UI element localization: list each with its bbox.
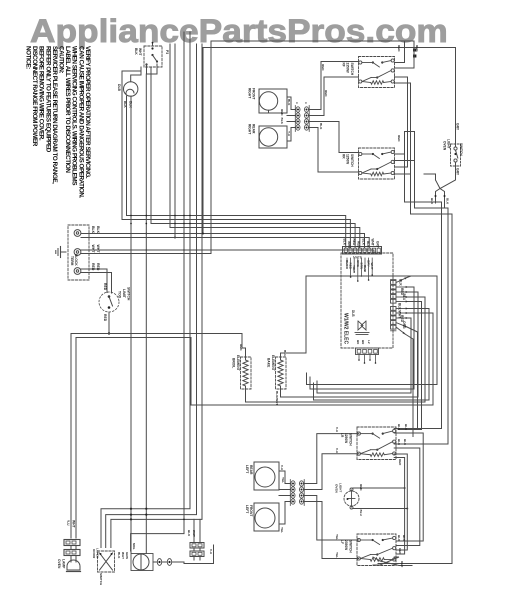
bottom connector blocks <box>187 519 204 560</box>
door latch switch <box>92 548 115 586</box>
wire P1 to RR switch <box>309 122 359 173</box>
svg-text:BLK: BLK <box>397 439 401 446</box>
svg-text:GRN: GRN <box>125 552 129 560</box>
svg-text:RED: RED <box>96 263 100 271</box>
svg-text:RED: RED <box>324 90 328 97</box>
svg-text:BLK: BLK <box>404 424 408 431</box>
svg-text:WHT: WHT <box>72 520 76 528</box>
board terminal strip <box>343 247 382 255</box>
svg-text:REFER ONLY TO FEATURES EQUIPPE: REFER ONLY TO FEATURES EQUIPPED <box>44 46 51 153</box>
wire P3/DLB down-feeds <box>131 64 157 82</box>
svg-text:OVEN: OVEN <box>443 141 447 151</box>
svg-text:BLK: BLK <box>134 48 138 55</box>
svg-text:RIGHT: RIGHT <box>248 124 252 134</box>
board connector CN2 <box>391 307 397 331</box>
svg-text:W1/W2 ELEC: W1/W2 ELEC <box>343 313 349 345</box>
svg-text:MDL: MDL <box>132 543 136 550</box>
connector pins motor <box>153 559 172 566</box>
svg-text:ORG: ORG <box>402 321 406 329</box>
svg-text:SERVICER PLEASE RETURN DIAGRAM: SERVICER PLEASE RETURN DIAGRAM TO RANGE, <box>51 46 58 184</box>
svg-text:WHT: WHT <box>96 245 100 254</box>
svg-text:RED: RED <box>415 45 419 52</box>
ground <box>56 247 66 258</box>
wire top bus y41 <box>202 41 455 234</box>
svg-text:RED: RED <box>357 241 361 248</box>
svg-text:NOTICE:: NOTICE: <box>25 46 32 69</box>
wire WHT pair terminal 2 <box>81 41 374 254</box>
wire RF to RR bridges <box>395 77 415 174</box>
svg-text:SWITCH: SWITCH <box>350 154 354 167</box>
svg-text:BLK: BLK <box>280 118 284 125</box>
wire left bus verticals <box>101 32 360 554</box>
svg-text:SWITCH: SWITCH <box>348 540 352 553</box>
wire latch to V-U riser <box>172 545 214 564</box>
svg-text:RED: RED <box>398 459 402 466</box>
svg-text:BLK/WHT: BLK/WHT <box>275 391 279 405</box>
svg-text:BLK: BLK <box>430 198 434 205</box>
connector P1 <box>295 102 309 132</box>
svg-text:LF: LF <box>340 540 344 544</box>
svg-text:SWITCH: SWITCH <box>348 433 352 446</box>
svg-text:GRY: GRY <box>456 168 460 176</box>
wire LF bottom crossover <box>373 535 412 568</box>
svg-text:RED: RED <box>397 45 401 52</box>
svg-text:RED: RED <box>239 344 243 351</box>
svg-text:BEFORE REMOVING WIRE COVER.: BEFORE REMOVING WIRE COVER. <box>38 46 45 141</box>
svg-text:TERM: TERM <box>70 256 74 266</box>
board internal relay DLB <box>351 310 369 335</box>
control board W1/W2 ELEC <box>341 253 393 348</box>
svg-text:DOOR: DOOR <box>92 549 96 559</box>
svg-text:RED: RED <box>359 484 363 491</box>
wire limit switch to junction <box>108 312 110 335</box>
svg-text:CAN CAUSE IMPROPER AND DANGERO: CAN CAUSE IMPROPER AND DANGEROUS OPERATI… <box>77 46 84 198</box>
svg-text:LEFT: LEFT <box>245 505 249 513</box>
svg-text:RED: RED <box>397 135 401 142</box>
svg-text:Y-U: Y-U <box>287 131 291 137</box>
svg-text:LIGHT: LIGHT <box>339 483 343 492</box>
svg-text:BLK: BLK <box>403 439 407 446</box>
svg-text:OVEN: OVEN <box>57 559 61 569</box>
svg-text:YEL: YEL <box>280 527 284 533</box>
svg-text:BLK: BLK <box>287 99 291 106</box>
wire GRY feed <box>456 48 460 176</box>
oven light switch <box>443 139 464 166</box>
connector blocks oven lamp <box>64 540 80 556</box>
svg-text:LEFT: LEFT <box>245 465 249 473</box>
board stub wires <box>346 258 373 282</box>
svg-text:BLK: BLK <box>399 279 403 286</box>
switch LF <box>340 534 396 566</box>
connector P3 door switch <box>134 42 169 67</box>
svg-text:RED: RED <box>398 548 402 555</box>
svg-text:V-U: V-U <box>335 427 339 433</box>
svg-text:LABEL ALL WIRES PRIOR TO DISCO: LABEL ALL WIRES PRIOR TO DISCONNECTION <box>64 46 71 173</box>
wire LR to bus and LF feeds <box>394 424 448 554</box>
svg-text:RF: RF <box>342 63 346 67</box>
svg-text:BK: BK <box>356 340 360 345</box>
oven lamp <box>57 556 81 572</box>
junction dots bundle <box>130 215 197 251</box>
svg-text:LIGHT: LIGHT <box>447 139 451 149</box>
svg-text:YEL: YEL <box>335 552 339 558</box>
svg-text:SWITCH: SWITCH <box>350 63 354 76</box>
svg-text:BLK: BLK <box>366 241 370 248</box>
svg-text:2350W: 2350W <box>344 540 348 550</box>
svg-text:RR: RR <box>342 154 346 159</box>
connector P2 <box>290 480 304 506</box>
svg-text:RED: RED <box>352 239 356 246</box>
svg-text:REAR: REAR <box>252 124 256 134</box>
svg-text:BLK: BLK <box>397 535 401 542</box>
burner left rear <box>245 462 279 490</box>
svg-text:BLK: BLK <box>397 424 401 431</box>
svg-text:BLK: BLK <box>446 198 450 205</box>
svg-text:OVEN: OVEN <box>335 484 339 494</box>
broil element <box>232 344 252 402</box>
svg-text:P3: P3 <box>165 50 169 54</box>
svg-text:LR: LR <box>340 433 344 438</box>
svg-text:RED: RED <box>103 283 107 291</box>
svg-text:YEL: YEL <box>335 534 339 540</box>
svg-text:BLU: BLU <box>359 510 363 517</box>
TOD limit switch <box>99 283 131 322</box>
svg-text:DLB: DLB <box>351 310 355 317</box>
watermark AppliancePartsPros.com <box>30 13 448 50</box>
burner right front <box>248 88 288 113</box>
switch RF <box>342 57 395 88</box>
svg-text:ELEMENT: ELEMENT <box>271 355 275 371</box>
door latch motor <box>131 543 153 571</box>
svg-text:V-U: V-U <box>280 465 284 471</box>
svg-text:BLK: BLK <box>117 552 121 559</box>
wire RR to right bus <box>378 154 452 564</box>
board bottom connector <box>356 340 379 364</box>
svg-text:1250W: 1250W <box>346 154 350 164</box>
svg-text:LAMP: LAMP <box>62 559 66 569</box>
svg-text:YEL: YEL <box>281 477 285 483</box>
svg-text:BAKE: BAKE <box>267 358 271 368</box>
svg-text:BLK: BLK <box>343 239 347 246</box>
burner right rear <box>248 124 288 148</box>
switch LR <box>340 427 396 460</box>
wire oven lamp feeders <box>66 334 246 539</box>
svg-text:V-U: V-U <box>209 549 213 555</box>
burner left front <box>245 503 279 531</box>
svg-text:WHT: WHT <box>192 530 196 537</box>
svg-text:1250W: 1250W <box>344 433 348 443</box>
caution text block <box>25 46 91 198</box>
svg-text:LATCH: LATCH <box>96 548 100 559</box>
svg-text:BLK: BLK <box>187 530 191 537</box>
wire CN1 fanout <box>246 276 438 430</box>
svg-text:WHT: WHT <box>91 245 95 254</box>
svg-text:SWITCH: SWITCH <box>459 143 463 156</box>
svg-text:4: 4 <box>295 102 299 104</box>
wire P2 to LF switch <box>304 496 359 559</box>
svg-text:GRY: GRY <box>375 241 379 249</box>
wire burners to P1 <box>280 97 296 141</box>
svg-text:REAR: REAR <box>249 465 253 475</box>
wire burners to P2 <box>279 465 291 533</box>
svg-text:V-U: V-U <box>335 448 339 454</box>
wire BLK pair terminal 1 <box>81 226 369 248</box>
wire RED pair terminal 3 <box>81 263 112 293</box>
switch RR <box>342 148 395 179</box>
svg-text:RED: RED <box>321 64 325 71</box>
svg-text:4: 4 <box>304 102 308 104</box>
svg-text:BLK: BLK <box>96 226 100 234</box>
svg-text:SWITCH: SWITCH <box>99 573 103 586</box>
svg-text:TOD: TOD <box>118 291 122 299</box>
svg-text:RED: RED <box>103 314 107 322</box>
door lock coil DLB <box>117 82 138 109</box>
svg-text:WHT: WHT <box>138 48 142 56</box>
oven light <box>335 483 409 517</box>
wire CN2 fanout <box>191 303 433 437</box>
svg-text:BLK: BLK <box>402 535 406 542</box>
svg-text:ELEMENT: ELEMENT <box>236 355 240 371</box>
wire crossover X <box>424 162 456 208</box>
svg-text:Y-U: Y-U <box>66 520 70 526</box>
svg-text:DISCONNECT RANGE FROM POWER: DISCONNECT RANGE FROM POWER <box>31 46 38 147</box>
svg-text:RED: RED <box>400 561 404 568</box>
svg-text:WHT: WHT <box>371 239 375 246</box>
svg-text:RIGHT: RIGHT <box>248 88 252 98</box>
board pin labels <box>343 239 380 273</box>
svg-text:SWITCH: SWITCH <box>127 287 131 301</box>
terminal block <box>68 225 89 280</box>
svg-text:WHT: WHT <box>347 241 351 248</box>
svg-text:WHT: WHT <box>121 552 125 559</box>
wire P1 to RF switch <box>309 62 359 116</box>
svg-text:BLK: BLK <box>91 226 95 234</box>
svg-text:RED: RED <box>91 263 95 271</box>
svg-text:BLU: BLU <box>283 350 287 357</box>
svg-text:BLK: BLK <box>319 123 323 130</box>
svg-text:VERIFY PROPER OPERATION AFTER: VERIFY PROPER OPERATION AFTER SERVICING. <box>84 46 91 179</box>
svg-text:BR: BR <box>361 340 365 345</box>
svg-text:L2: L2 <box>367 340 371 344</box>
board connector CN1 <box>391 280 397 304</box>
svg-text:FRONT: FRONT <box>249 505 253 516</box>
svg-text:DLB: DLB <box>117 84 121 92</box>
svg-text:FRONT: FRONT <box>252 88 256 99</box>
connector marks right bus <box>413 49 416 58</box>
wire P2 to LR switch <box>304 427 359 490</box>
svg-text:CAUTION:: CAUTION: <box>58 46 65 74</box>
svg-text:2350W: 2350W <box>346 63 350 73</box>
bake element <box>267 276 412 405</box>
svg-text:GRY: GRY <box>456 123 460 131</box>
svg-text:BLOCK: BLOCK <box>74 254 78 266</box>
svg-text:BLU: BLU <box>402 294 406 301</box>
svg-text:WHEN SERVICING CONTROLS. WIRIN: WHEN SERVICING CONTROLS. WIRING PROBLEMS <box>71 46 78 185</box>
svg-text:BROIL: BROIL <box>232 358 236 368</box>
svg-text:LIMIT: LIMIT <box>122 289 126 299</box>
svg-text:BLK: BLK <box>361 239 365 246</box>
svg-text:RED: RED <box>280 109 284 116</box>
labels latch wires <box>117 552 129 560</box>
